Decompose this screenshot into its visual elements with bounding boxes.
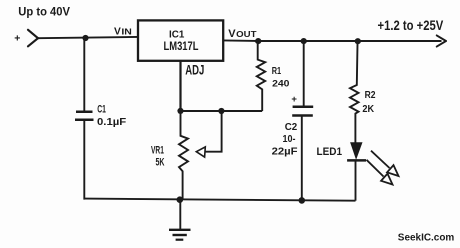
potentiometer VR1 xyxy=(179,113,188,200)
svg-text:+1.2 to +25V: +1.2 to +25V xyxy=(378,18,444,33)
wire: C1 branch from input junction xyxy=(83,38,85,111)
node: R2 top junction xyxy=(355,38,361,44)
wire: C1 bottom to ground rail xyxy=(83,121,85,200)
wire: ADJ bus xyxy=(181,110,263,112)
svg-text:R1: R1 xyxy=(272,66,282,77)
LED LED1 cathode bar xyxy=(347,159,366,162)
svg-text:VIN: VIN xyxy=(114,27,132,38)
wire: ADJ pin down xyxy=(179,61,181,111)
node: input junction dot xyxy=(82,35,88,41)
svg-text:+: + xyxy=(291,94,297,105)
svg-text:5K: 5K xyxy=(156,157,165,169)
svg-text:ADJ: ADJ xyxy=(185,62,204,77)
wire: ground rail xyxy=(84,199,355,201)
svg-text:2K: 2K xyxy=(362,104,374,115)
svg-text:240: 240 xyxy=(272,78,289,88)
node: VR1 ground junction dot xyxy=(177,196,184,203)
ground symbol xyxy=(169,200,191,240)
svg-text:C1: C1 xyxy=(97,103,106,115)
svg-text:R2: R2 xyxy=(365,90,376,101)
svg-text:LED1: LED1 xyxy=(317,146,343,158)
wire: C2 bottom lead xyxy=(301,117,303,201)
node: C2 top junction xyxy=(301,38,307,44)
output arrow head xyxy=(437,35,446,46)
resistor R1 xyxy=(257,44,265,111)
node: wiper junction dot xyxy=(218,108,224,114)
input terminal chevron xyxy=(28,30,38,47)
wire: C2 top lead xyxy=(303,41,305,106)
svg-text:0.1µF: 0.1µF xyxy=(97,117,126,128)
LED light arrow upper xyxy=(371,151,399,176)
svg-text:C2: C2 xyxy=(285,122,298,133)
svg-text:LM317L: LM317L xyxy=(164,39,199,53)
svg-text:VR1: VR1 xyxy=(151,145,164,157)
svg-text:VOUT: VOUT xyxy=(228,28,256,40)
svg-text:SeekIC.com: SeekIC.com xyxy=(398,233,455,244)
wire: LED bottom lead xyxy=(355,161,357,200)
svg-text:10-: 10- xyxy=(283,134,296,145)
node: ADJ junction dot xyxy=(177,108,183,114)
wiper arrow head xyxy=(196,147,205,157)
node: VOUT junction (R1) xyxy=(255,38,261,44)
LED LED1 triangle xyxy=(351,143,362,159)
node: C2 ground junction dot xyxy=(299,197,306,204)
svg-text:22µF: 22µF xyxy=(272,147,298,158)
wire: input to VIN pin xyxy=(38,37,138,38)
LED light arrow lower xyxy=(367,160,393,185)
resistor R2 xyxy=(350,44,359,143)
wire: VOUT output rail xyxy=(223,39,441,42)
svg-text:Up to 40V: Up to 40V xyxy=(18,5,70,19)
capacitor C2 xyxy=(292,107,313,116)
capacitor C1 xyxy=(75,112,94,120)
wire: wiper arm xyxy=(205,111,222,152)
regulator IC1 box xyxy=(138,20,223,60)
svg-text:+: + xyxy=(14,32,20,44)
